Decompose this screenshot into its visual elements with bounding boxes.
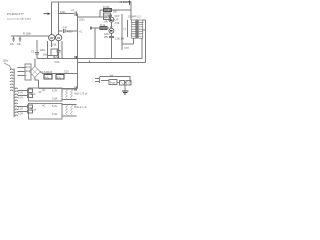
svg-text:R ch: R ch [31, 109, 37, 112]
svg-text:(vacuum tube DAC buffer): (vacuum tube DAC buffer) [7, 18, 31, 21]
svg-text:Fuse: Fuse [110, 82, 116, 85]
svg-text:6.3V: 6.3V [18, 107, 23, 110]
svg-text:220u: 220u [40, 49, 46, 52]
svg-text:PV-DAC1??: PV-DAC1?? [7, 12, 24, 16]
svg-text:Note 1: R ch: Note 1: R ch [75, 93, 88, 96]
svg-text:25V: 25V [104, 36, 109, 39]
svg-text:GND: GND [54, 56, 60, 59]
svg-text:100p: 100p [60, 11, 66, 14]
svg-text:6.3V: 6.3V [18, 91, 23, 94]
svg-text:0.3A: 0.3A [52, 97, 57, 100]
svg-text:R 100k: R 100k [23, 33, 32, 36]
svg-text:400V: 400V [67, 31, 73, 34]
svg-text:16V: 16V [43, 53, 48, 56]
svg-text:6R: 6R [105, 20, 108, 23]
svg-text:1.5k 1W: 1.5k 1W [115, 37, 125, 40]
svg-text:C10: C10 [64, 70, 69, 73]
svg-text:AC: AC [42, 89, 46, 92]
svg-text:6.3V: 6.3V [52, 105, 57, 108]
svg-text:47u: 47u [57, 76, 62, 79]
svg-text:Lout: Lout [124, 46, 129, 49]
svg-text:47u: 47u [45, 76, 50, 79]
svg-text:+B 250V: +B 250V [119, 1, 129, 4]
svg-text:2W: 2W [113, 11, 117, 14]
svg-text:0.3A: 0.3A [52, 113, 57, 116]
svg-text:6.3V: 6.3V [18, 96, 23, 99]
svg-text:R 1k: R 1k [100, 24, 106, 27]
svg-text:1.5k: 1.5k [52, 44, 57, 47]
svg-text:COM-R 1:2: COM-R 1:2 [128, 15, 141, 18]
svg-text:+C: +C [79, 31, 82, 34]
svg-text:R 20k: R 20k [103, 6, 110, 9]
svg-text:6.3V: 6.3V [52, 89, 57, 92]
svg-text:220u: 220u [79, 18, 85, 21]
svg-text:AC2: AC2 [26, 70, 31, 73]
svg-text:AC1: AC1 [26, 66, 31, 69]
svg-text:L ch: L ch [31, 93, 36, 96]
svg-text:R1-5-R100: R1-5-R100 [40, 71, 53, 74]
svg-text:6.3V: 6.3V [18, 112, 23, 115]
svg-text:+ -: + - [26, 74, 29, 77]
svg-text:100V: 100V [3, 59, 9, 62]
svg-text:+C: +C [71, 9, 74, 12]
svg-text:0.5A: 0.5A [55, 61, 60, 64]
svg-text:2.5k: 2.5k [115, 22, 120, 25]
svg-text:Note 2: L ch: Note 2: L ch [75, 106, 88, 109]
svg-text:AC: AC [42, 105, 46, 108]
svg-text:0.47: 0.47 [63, 27, 68, 30]
